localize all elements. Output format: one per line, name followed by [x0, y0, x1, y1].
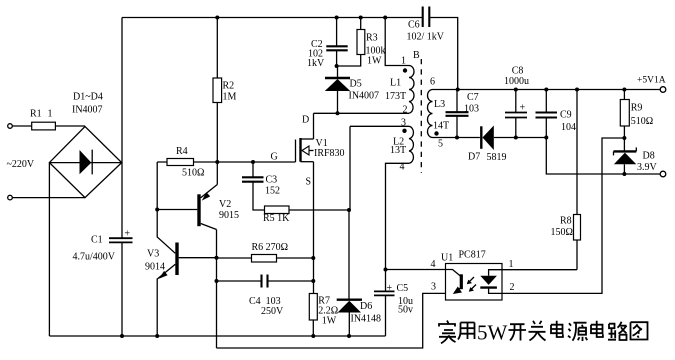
node dot R2 top	[215, 16, 219, 20]
svg-text:173T: 173T	[385, 91, 406, 102]
svg-text:2: 2	[403, 105, 408, 116]
transformer L3 winding 14T	[428, 90, 433, 138]
wire pin3 down to snubber node and D6	[349, 126, 351, 210]
svg-text:D5: D5	[350, 79, 362, 90]
wire R1 to bridge top	[55, 125, 85, 127]
svg-text:R8: R8	[560, 216, 572, 227]
transistor V2 9015	[197, 194, 200, 226]
char dian	[551, 321, 563, 337]
svg-text:5819: 5819	[487, 152, 507, 163]
svg-text:C3: C3	[266, 175, 278, 186]
svg-text:L1: L1	[390, 78, 401, 89]
svg-text:510Ω: 510Ω	[631, 116, 653, 127]
wire top rail	[122, 17, 385, 19]
svg-text:C9: C9	[560, 110, 572, 121]
opto phototransistor	[446, 270, 462, 277]
zener D8 3.9V	[614, 150, 637, 152]
svg-text:R9: R9	[631, 103, 643, 114]
svg-text:D7: D7	[468, 152, 480, 163]
svg-text:3.9V: 3.9V	[637, 162, 658, 173]
svg-text:1000u: 1000u	[504, 76, 529, 87]
wire L2 pin4 down to C5 node	[386, 163, 410, 269]
mosfet V1 channel bar	[299, 138, 301, 162]
resistor R5	[265, 206, 290, 214]
wire drain up	[313, 113, 315, 139]
wire R5 to snubber node	[289, 209, 349, 211]
node dot D5 anode tap	[336, 111, 340, 115]
terminal +5V output	[660, 87, 666, 93]
svg-text:C8: C8	[512, 65, 524, 76]
capacitor C2	[336, 18, 338, 47]
wire C5 node to opto pin4	[386, 269, 446, 271]
svg-text:R4: R4	[176, 146, 188, 157]
mosfet V1 source stub	[301, 161, 314, 163]
svg-text:D6: D6	[360, 301, 372, 312]
capacitor C6	[385, 17, 423, 19]
node dot V3 emitter at rail	[155, 334, 159, 338]
node dot C6/pin6 junction	[456, 88, 460, 92]
transformer core dashed	[420, 59, 422, 173]
resistor R6	[217, 257, 252, 259]
resistor R3	[360, 18, 362, 30]
svg-text:S: S	[306, 177, 312, 188]
svg-text:+: +	[520, 103, 526, 114]
svg-text:3: 3	[431, 282, 436, 293]
svg-text:9014: 9014	[145, 262, 165, 273]
wire pin5 0V line	[433, 137, 480, 139]
svg-text:V2: V2	[219, 199, 231, 210]
svg-text:1: 1	[48, 109, 53, 120]
node dot C2 top	[335, 16, 339, 20]
wire top rail to L1 pin1	[385, 18, 409, 66]
svg-text:510Ω: 510Ω	[182, 168, 204, 179]
char tu	[631, 322, 648, 339]
char kai	[509, 324, 527, 340]
node dot C7 bottom	[455, 136, 459, 140]
wire source down through R7 tap	[313, 162, 315, 294]
char yuan	[568, 323, 587, 341]
capacitor C3	[252, 162, 254, 177]
node dot pin1 branch	[383, 16, 387, 20]
wire 0V jog down and right to output	[546, 138, 660, 175]
wire collector node down to feedback line	[216, 281, 218, 348]
wire feedback line to optocoupler pin3	[217, 293, 446, 348]
svg-text:1W: 1W	[322, 316, 337, 327]
node dot D6 at rail	[347, 334, 351, 338]
title 实用5W开关电源电路图 (drawn strokes)	[439, 321, 648, 345]
resistor R8	[575, 88, 579, 92]
mosfet V1 IRF830 gate bar	[295, 140, 297, 163]
node dot V2/V3 collector junction	[215, 256, 219, 260]
wire down then diagonal to V3 base	[157, 210, 175, 254]
svg-text:3: 3	[401, 118, 406, 129]
node dot C4 left	[215, 279, 219, 283]
wire left HV vertical (bridge+ to top rail and down through C1)	[121, 18, 123, 238]
resistor R9	[622, 88, 626, 92]
svg-text:5W: 5W	[477, 321, 508, 345]
svg-text:150Ω: 150Ω	[551, 227, 573, 238]
capacitor C5 electrolytic	[384, 268, 388, 272]
wire primary ground rail	[49, 335, 385, 337]
char dian2	[591, 321, 603, 337]
svg-text:102/ 1kV: 102/ 1kV	[407, 32, 445, 43]
optocoupler U1 PC817 box	[446, 264, 503, 301]
terminal 0V output	[660, 171, 666, 177]
svg-text:C5: C5	[397, 283, 409, 294]
opto LED	[489, 270, 502, 276]
resistor R4	[167, 159, 194, 166]
wire pin6 to +5V rail	[433, 89, 458, 91]
svg-text:104: 104	[561, 122, 576, 133]
terminal AC input top	[8, 124, 13, 129]
char yong	[458, 323, 475, 340]
svg-text:2: 2	[510, 282, 515, 293]
svg-text:IRF830: IRF830	[314, 148, 345, 159]
svg-text:U1: U1	[441, 253, 453, 264]
node dot C1 at rail	[120, 334, 124, 338]
node dot R3 top	[359, 16, 363, 20]
svg-text:50v: 50v	[398, 305, 413, 316]
svg-text:6: 6	[430, 77, 435, 88]
wire R8 to opto pin1	[502, 269, 577, 271]
svg-text:152: 152	[265, 186, 280, 197]
svg-text:D: D	[302, 115, 309, 126]
node dot C3 top	[251, 160, 255, 164]
resistor R2	[216, 18, 218, 79]
char shi	[439, 321, 456, 344]
svg-text:+: +	[387, 283, 393, 294]
resistor R1	[32, 122, 56, 130]
svg-text:9015: 9015	[219, 210, 239, 221]
svg-text:L3: L3	[434, 99, 445, 110]
svg-text:C7: C7	[467, 92, 479, 103]
wire R4 left down to V2 base	[156, 162, 158, 210]
svg-text:G: G	[271, 152, 278, 163]
svg-text:R6 270Ω: R6 270Ω	[252, 242, 289, 253]
wire bridge left corner down to ground rail	[48, 163, 50, 336]
mosfet V1 drain stub	[301, 138, 314, 140]
svg-text:D1~D4: D1~D4	[73, 91, 103, 102]
transformer L2 winding 13T	[409, 126, 413, 163]
wire R9 bottom to opto pin2	[502, 138, 624, 293]
wire V2 collector down	[216, 230, 218, 258]
char guan	[529, 321, 546, 341]
svg-text:PC817: PC817	[459, 250, 486, 261]
svg-text:1W: 1W	[367, 56, 382, 67]
transistor V3 9014	[175, 243, 178, 276]
svg-text:R1: R1	[30, 109, 42, 120]
capacitor C1 electrolytic	[109, 237, 133, 239]
svg-text:IN4148: IN4148	[351, 314, 382, 325]
capacitor C8 electrolytic	[514, 88, 518, 92]
bridge rectifier D1~D4 diamond	[49, 127, 121, 198]
svg-text:C6: C6	[408, 20, 420, 31]
bridge inner diode	[49, 162, 121, 164]
node dot R2 bottom	[215, 160, 219, 164]
capacitor C7	[456, 90, 458, 113]
resistor R7	[309, 294, 317, 321]
svg-text:13T: 13T	[390, 145, 406, 156]
svg-text:1M: 1M	[223, 92, 237, 103]
diode D7 5819	[480, 126, 482, 149]
svg-text:R5 1K: R5 1K	[263, 213, 290, 224]
wire +5V rail	[458, 89, 661, 91]
terminal AC input bottom	[8, 195, 13, 200]
svg-text:1: 1	[509, 259, 514, 270]
svg-text:4.7u/400V: 4.7u/400V	[73, 252, 116, 263]
node dot R9 bottom	[622, 136, 626, 140]
wire collector node down to C4 tap	[216, 258, 218, 281]
svg-text:+: +	[124, 228, 130, 239]
diode D6 IN4148	[337, 299, 362, 301]
svg-text:~220V: ~220V	[7, 159, 35, 170]
svg-text:14T: 14T	[433, 121, 449, 132]
wire input bottom to bridge bottom corner	[12, 197, 85, 199]
svg-text:1: 1	[401, 56, 406, 67]
svg-text:4: 4	[431, 259, 436, 270]
wire V3 emitter down to ground rail	[156, 279, 158, 337]
svg-text:C1: C1	[91, 235, 103, 246]
svg-text:V3: V3	[147, 249, 159, 260]
svg-text:+5V1A: +5V1A	[637, 76, 666, 86]
node dot V2 base	[155, 208, 159, 212]
diode D5 IN4007	[337, 66, 339, 78]
node dot C2/R3 bottom junction	[335, 64, 339, 68]
node dot R7 bottom at rail	[311, 334, 315, 338]
svg-text:5: 5	[438, 139, 443, 150]
node dot R6 right	[311, 256, 315, 260]
opto light arrows	[468, 277, 477, 291]
capacitor C4	[217, 280, 262, 282]
node dot C4 right	[311, 279, 315, 283]
svg-text:103: 103	[464, 104, 479, 115]
wire drain node to L1 pin2	[314, 112, 410, 114]
wire gate node horizontal	[157, 161, 295, 163]
char lu	[608, 322, 627, 340]
mosfet V1 body arrow	[302, 150, 314, 152]
wire V2 base	[157, 209, 197, 211]
svg-text:R2: R2	[223, 81, 235, 92]
wire V2 emitter up to gate node	[216, 162, 218, 185]
wire L2 pin3	[350, 125, 409, 127]
wire input top to R1	[12, 125, 31, 127]
capacitor C9	[544, 88, 548, 92]
svg-text:1kV: 1kV	[307, 58, 325, 69]
node dot S-R5 wire at x349	[347, 208, 351, 212]
svg-text:IN4007: IN4007	[72, 104, 103, 115]
svg-text:B: B	[413, 50, 420, 61]
svg-text:IN4007: IN4007	[349, 91, 380, 102]
svg-text:R3: R3	[366, 33, 378, 44]
transformer L1 winding 173T	[409, 66, 414, 114]
svg-text:D8: D8	[643, 151, 655, 162]
svg-text:250V: 250V	[261, 306, 284, 317]
